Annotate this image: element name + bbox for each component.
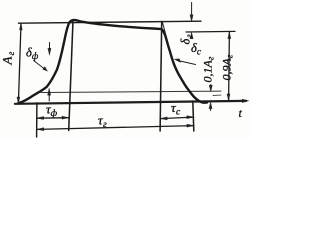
svg-text:t: t bbox=[239, 106, 243, 120]
δф leader line bbox=[34, 61, 47, 71]
front overshoot upper arrow (δф) bbox=[49, 43, 51, 50]
amplitude dimension top arrowhead bbox=[20, 23, 23, 30]
small tick right of 0.1A line bbox=[213, 94, 221, 96]
0.1A level line bbox=[41, 91, 221, 92]
amplitude top reference line bbox=[19, 21, 202, 23]
svg-text:δф: δф bbox=[26, 46, 39, 62]
svg-text:Aг: Aг bbox=[0, 50, 17, 65]
svg-text:δс: δс bbox=[191, 41, 201, 56]
0.9A level tick line bbox=[186, 30, 235, 33]
amplitude dimension bottom arrowhead bbox=[17, 97, 20, 104]
0.9A dimension bottom arrowhead bbox=[227, 94, 230, 101]
time axis bbox=[15, 101, 246, 104]
droop dimension upper arrow (δг) bbox=[191, 3, 193, 16]
front top (peak) extension line bbox=[69, 21, 73, 131]
rise time dimension τф bbox=[37, 117, 69, 120]
δс leader line bbox=[178, 61, 196, 65]
svg-text:τг: τг bbox=[98, 113, 107, 131]
0.9A dimension line bbox=[228, 32, 231, 100]
0.1A dimension lower arrow (below axis) bbox=[210, 108, 212, 111]
front start extension line bbox=[36, 103, 38, 137]
fall end extension line bbox=[193, 101, 194, 131]
fall top extension line bbox=[160, 21, 162, 131]
droop dimension lower arrow bbox=[190, 32, 193, 39]
0.9A dimension top arrowhead bbox=[228, 32, 231, 39]
time axis arrowhead bbox=[242, 99, 250, 103]
fall time dimension τс bbox=[160, 117, 193, 119]
ideal fall straight line bbox=[162, 22, 172, 61]
amplitude dimension line Аг bbox=[18, 23, 21, 103]
0.1A dimension upper arrow bbox=[210, 85, 212, 87]
front 0.1A lower arrow bbox=[48, 95, 50, 102]
svg-text:0,9Aг: 0,9Aг bbox=[220, 54, 235, 80]
svg-text:0,1Aг: 0,1Aг bbox=[201, 56, 216, 82]
pulse waveform curve bbox=[19, 20, 208, 103]
pulse duration dimension τг bbox=[37, 126, 194, 130]
